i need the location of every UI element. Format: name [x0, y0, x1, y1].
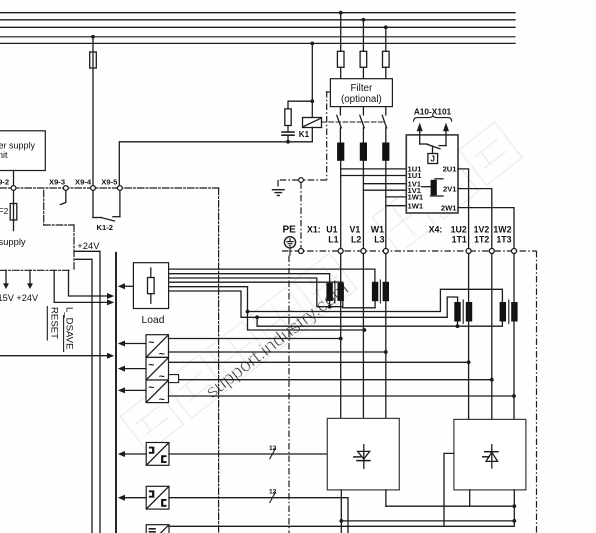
arrow down 15V	[3, 270, 9, 289]
wire D1 to converter box	[169, 453, 327, 455]
glyph analog D1	[161, 455, 166, 463]
wire CT2 secondary bottom	[169, 282, 376, 308]
glyph analog D2	[161, 499, 166, 507]
node junction CT3 return	[456, 324, 460, 328]
current transformer CT2	[372, 280, 389, 303]
capacitor C snubber	[282, 132, 294, 135]
wire phase W reactor to X1	[385, 161, 387, 249]
svg-text:~: ~	[148, 336, 154, 348]
wire CT3 bottom lead	[457, 322, 459, 327]
transducer box A	[146, 335, 169, 358]
wire 2W1 out	[458, 208, 514, 249]
arrow terminal left of A10-X101	[417, 123, 423, 144]
wire K1 return to X9-5	[119, 142, 312, 188]
svg-text:W1: W1	[371, 224, 384, 234]
jumper box J	[428, 154, 438, 164]
wire CT3 CT4 return	[257, 317, 502, 326]
wire 1U2 sense	[169, 361, 469, 363]
enclosure dash-dot PE drop	[300, 182, 302, 248]
node junction bus N x93	[91, 35, 95, 39]
label Filter optional	[341, 83, 382, 105]
wire phase U1 to converter	[340, 254, 342, 419]
terminal circle X4 1V2	[489, 249, 494, 254]
wire CT2 secondary top	[169, 269, 375, 282]
svg-text:supply: supply	[0, 236, 26, 247]
terminal circle X1 U1	[338, 249, 343, 254]
enclosure dash-dot supply boundary	[0, 190, 74, 270]
glyph digital D1	[149, 447, 154, 454]
wire 1W2 sense	[169, 395, 515, 397]
terminal circle X9-5	[118, 186, 123, 191]
wire CT4 secondary top	[169, 286, 248, 288]
wire W1 sense	[169, 351, 386, 353]
wire phase V1 to converter	[362, 254, 364, 419]
node junction CT1 return	[328, 305, 332, 309]
arrow load feed	[118, 283, 134, 289]
fuse FW	[383, 51, 390, 67]
wire dc link bus	[386, 505, 514, 507]
svg-text:L_DSAVE: L_DSAVE	[64, 307, 75, 349]
svg-text:2W1: 2W1	[441, 203, 457, 212]
svg-text:A10-X101: A10-X101	[414, 107, 452, 117]
bus width marker 12	[270, 449, 276, 459]
converter box D3	[146, 525, 169, 533]
resistor load	[148, 268, 155, 303]
svg-text:X9-3: X9-3	[49, 178, 65, 187]
board edge line	[115, 253, 117, 533]
wire converter1 bottom left	[340, 490, 342, 533]
wire analog input arrow	[0, 353, 114, 359]
svg-text:X4:: X4:	[429, 224, 443, 234]
switch blade inside A10-X101	[420, 144, 446, 149]
wire CT1 bottom lead	[329, 301, 331, 307]
svg-text:1W1: 1W1	[408, 201, 424, 210]
thyristor converter box 1	[327, 418, 399, 490]
current transformer CT1	[326, 281, 344, 303]
node junction bus L3 tap	[384, 25, 388, 29]
wire phase 1V2 to converter	[491, 254, 493, 420]
overbar DSAVE	[63, 316, 65, 352]
enclosure dash-dot X9 row	[0, 187, 219, 189]
svg-text:2V1: 2V1	[443, 184, 457, 193]
terminal circle PE link	[299, 178, 304, 183]
svg-text:X9-4: X9-4	[75, 178, 92, 187]
wire 2V1 out	[458, 189, 492, 249]
wire bus line N	[0, 36, 515, 38]
wire drop to K1 coil	[311, 43, 313, 117]
wire dc minus bus	[341, 520, 514, 522]
contactor K1 main contact V	[360, 107, 364, 143]
ground symbol	[272, 190, 285, 196]
wire phase V reactor to X1	[362, 161, 364, 249]
wire CT3 secondary top	[169, 291, 458, 317]
node junction W1 sense	[384, 350, 388, 354]
wire 2U1 out	[458, 169, 469, 249]
terminal circle X1 W1	[383, 249, 388, 254]
wire D2 down right	[169, 498, 348, 533]
mechanical linkage K1 dashed	[322, 121, 383, 123]
svg-text:1U2: 1U2	[451, 224, 467, 234]
terminal circle X4 1U2	[466, 249, 471, 254]
wire converter2 bottom left	[469, 490, 471, 506]
enclosure dash-dot drive left edge	[218, 188, 220, 533]
node junction 1V2 sense	[490, 378, 494, 382]
jumper link symbol 2V1	[422, 179, 443, 196]
wire D3 out	[169, 525, 514, 527]
svg-text:Filter: Filter	[351, 83, 374, 94]
svg-text:X9-5: X9-5	[101, 178, 118, 187]
wire PE stub	[289, 248, 291, 256]
thyristor symbol up	[483, 445, 498, 468]
wire bus line L2	[0, 19, 515, 21]
filter box	[330, 79, 392, 107]
svg-text:RESET: RESET	[48, 307, 59, 339]
wire filter drop W	[385, 27, 387, 51]
svg-text:Load: Load	[142, 315, 165, 326]
terminal circle X1 PE	[299, 249, 304, 254]
contact K1-2	[93, 190, 120, 221]
wire switch to J box	[432, 147, 434, 153]
node junction dc minus	[339, 519, 343, 523]
wire filter drop V	[362, 20, 364, 52]
converter box D2	[146, 486, 169, 509]
connector tab box B	[169, 375, 179, 383]
fuse F1 on X9-4 drop	[90, 52, 97, 68]
thyristor converter box 2	[454, 419, 526, 490]
power supply unit box	[0, 131, 45, 171]
transducer box C	[146, 380, 169, 403]
wire bus line 5	[0, 42, 515, 44]
wire bus line L3	[0, 26, 515, 28]
node junction return branch	[255, 315, 259, 319]
svg-text:V1: V1	[350, 224, 361, 234]
contactor K1 main contact U	[337, 107, 341, 143]
svg-text:K1: K1	[299, 130, 310, 139]
svg-text:1W1: 1W1	[408, 193, 424, 202]
reactor W winding	[382, 143, 389, 161]
node junction staircase	[246, 310, 250, 314]
arrow transducer A out	[118, 341, 146, 347]
resistor R snubber	[285, 109, 291, 126]
svg-text:K1-2: K1-2	[97, 223, 113, 232]
svg-text:X9-2: X9-2	[0, 178, 9, 187]
wire converter2 bottom right	[513, 490, 515, 526]
wire capacitor to rail	[287, 135, 289, 142]
wire 1W1 pin b	[386, 205, 407, 207]
current transformer CT4	[500, 300, 518, 324]
bus width marker 12 second	[270, 492, 276, 502]
svg-text:+24V: +24V	[77, 240, 100, 251]
reactor V winding	[360, 143, 367, 161]
wire CT4 feed staircase	[248, 289, 503, 311]
wire filter drop U	[340, 13, 342, 52]
watermark diagonal	[120, 122, 522, 452]
node junction dc link	[512, 504, 516, 508]
fuse F2	[10, 204, 17, 221]
wire fuse V to filter	[362, 67, 364, 78]
node junction snubber top	[310, 99, 314, 103]
wire K1 coil bottom	[311, 128, 313, 142]
svg-text:L3: L3	[374, 235, 384, 245]
terminal circle X1 V1	[361, 249, 366, 254]
svg-text:1T2: 1T2	[474, 235, 489, 245]
wire phase 1W2 to converter	[513, 254, 515, 420]
connector block A10-X101 box	[406, 135, 458, 213]
fuse FV	[360, 51, 367, 67]
arrow down +24V	[27, 270, 33, 289]
svg-text:L1: L1	[328, 235, 338, 245]
wire V1 sense drop	[248, 287, 365, 330]
wire CT1 secondary top	[169, 274, 330, 283]
wire 1V1 pin a	[363, 183, 406, 185]
terminal circle X4 1W2	[512, 249, 517, 254]
node junction dc minus right	[512, 519, 516, 523]
arrow converter D2	[118, 495, 146, 501]
wire snubber branch top	[288, 101, 312, 109]
wire CT1 secondary bottom	[169, 278, 343, 307]
load box	[133, 263, 168, 309]
terminal circle X9-2	[11, 186, 16, 191]
wire 1W1 pin a	[386, 196, 407, 198]
svg-text:1V2: 1V2	[474, 224, 490, 234]
svg-text:1T3: 1T3	[496, 235, 511, 245]
overbar RESET	[46, 307, 48, 341]
svg-text:~: ~	[159, 371, 165, 383]
wire 1V2 sense	[179, 379, 492, 381]
node junction snubber bottom	[286, 140, 290, 144]
svg-text:1W2: 1W2	[493, 224, 511, 234]
enclosure dash-dot filter ground	[278, 91, 330, 189]
protective earth symbol PE	[284, 237, 295, 248]
node junction 1W2 sense	[512, 394, 516, 398]
wire 1U1 pin a	[341, 168, 407, 170]
svg-text:~: ~	[148, 359, 154, 371]
fuse FU	[337, 51, 344, 67]
svg-text:1T1: 1T1	[452, 235, 467, 245]
wire converter2 left tap	[444, 453, 454, 526]
node junction 1U2 sense	[467, 360, 471, 364]
arrow terminal right of A10-X101	[443, 123, 449, 146]
transducer box B	[146, 357, 169, 380]
converter box D1	[146, 443, 169, 466]
brace over A10-X101 arrows	[414, 116, 452, 122]
wire X9-2 to fuse F2	[13, 190, 15, 230]
arrow converter D1	[118, 451, 146, 457]
terminal circle X9-4	[91, 186, 96, 191]
svg-text:~: ~	[148, 382, 154, 394]
arrow transducer B out	[118, 366, 146, 372]
reactor U winding	[337, 143, 344, 161]
terminal circle X9-3	[63, 186, 68, 191]
svg-text:unit: unit	[0, 150, 8, 160]
wire 1V1 pin b	[363, 189, 406, 191]
current transformer CT3	[454, 300, 472, 324]
svg-text:L2: L2	[351, 235, 361, 245]
enclosure dash-dot below PE	[288, 256, 290, 533]
svg-text:F2: F2	[0, 206, 9, 216]
enclosure dash-dot terminal row X1 X4	[282, 250, 537, 252]
wire 1U1 pin b	[341, 175, 407, 177]
wire resistor to capacitor	[287, 126, 289, 132]
relay coil K1	[303, 118, 322, 128]
svg-text:12: 12	[269, 445, 277, 452]
thyristor symbol down	[354, 445, 370, 469]
wire RESET signal	[54, 270, 114, 305]
label power supply unit	[0, 141, 36, 161]
svg-text:2U1: 2U1	[443, 165, 458, 174]
wire drop to X9-4 fuse	[92, 37, 94, 188]
contactor K1 main contact W	[382, 107, 386, 143]
svg-text:J: J	[430, 154, 434, 163]
node junction bus5 x312	[310, 42, 314, 46]
svg-text:PE: PE	[283, 224, 297, 235]
svg-text:~: ~	[159, 393, 165, 405]
glyph equals D3	[150, 529, 156, 532]
wire phase W1 to converter	[385, 254, 387, 419]
svg-text:~: ~	[159, 348, 165, 360]
node junction bus L2 tap	[362, 18, 366, 22]
node junction U1 sense	[339, 337, 343, 341]
svg-text:(optional): (optional)	[341, 94, 382, 105]
svg-text:X1:: X1:	[307, 224, 321, 234]
wire L_DSAVE signal	[69, 270, 115, 299]
wire 15V rail	[76, 259, 93, 533]
node junction bus L1 tap	[339, 11, 343, 15]
wire psu to X9-2	[13, 171, 15, 186]
svg-text:U1: U1	[326, 224, 337, 234]
wire converter1 bottom right	[385, 490, 387, 506]
wire U1 sense	[169, 338, 341, 340]
arrow transducer C out	[118, 387, 146, 393]
wire bus line L1	[0, 12, 515, 14]
node junction V1 sense	[363, 328, 367, 332]
svg-text:12: 12	[269, 489, 277, 496]
svg-text:Power supply: Power supply	[0, 141, 36, 151]
glyph digital D2	[149, 490, 154, 497]
wire X9-3 stub	[60, 190, 66, 204]
wire phase U reactor to X1	[340, 161, 342, 249]
svg-text:15V +24V: 15V +24V	[0, 293, 39, 303]
wire +24V rail	[74, 251, 100, 533]
wire fuse U to filter	[340, 67, 342, 78]
wire fuse W to filter	[385, 67, 387, 78]
wire phase 1U2 to converter	[468, 254, 470, 420]
enclosure dash-dot right edge	[536, 251, 538, 533]
